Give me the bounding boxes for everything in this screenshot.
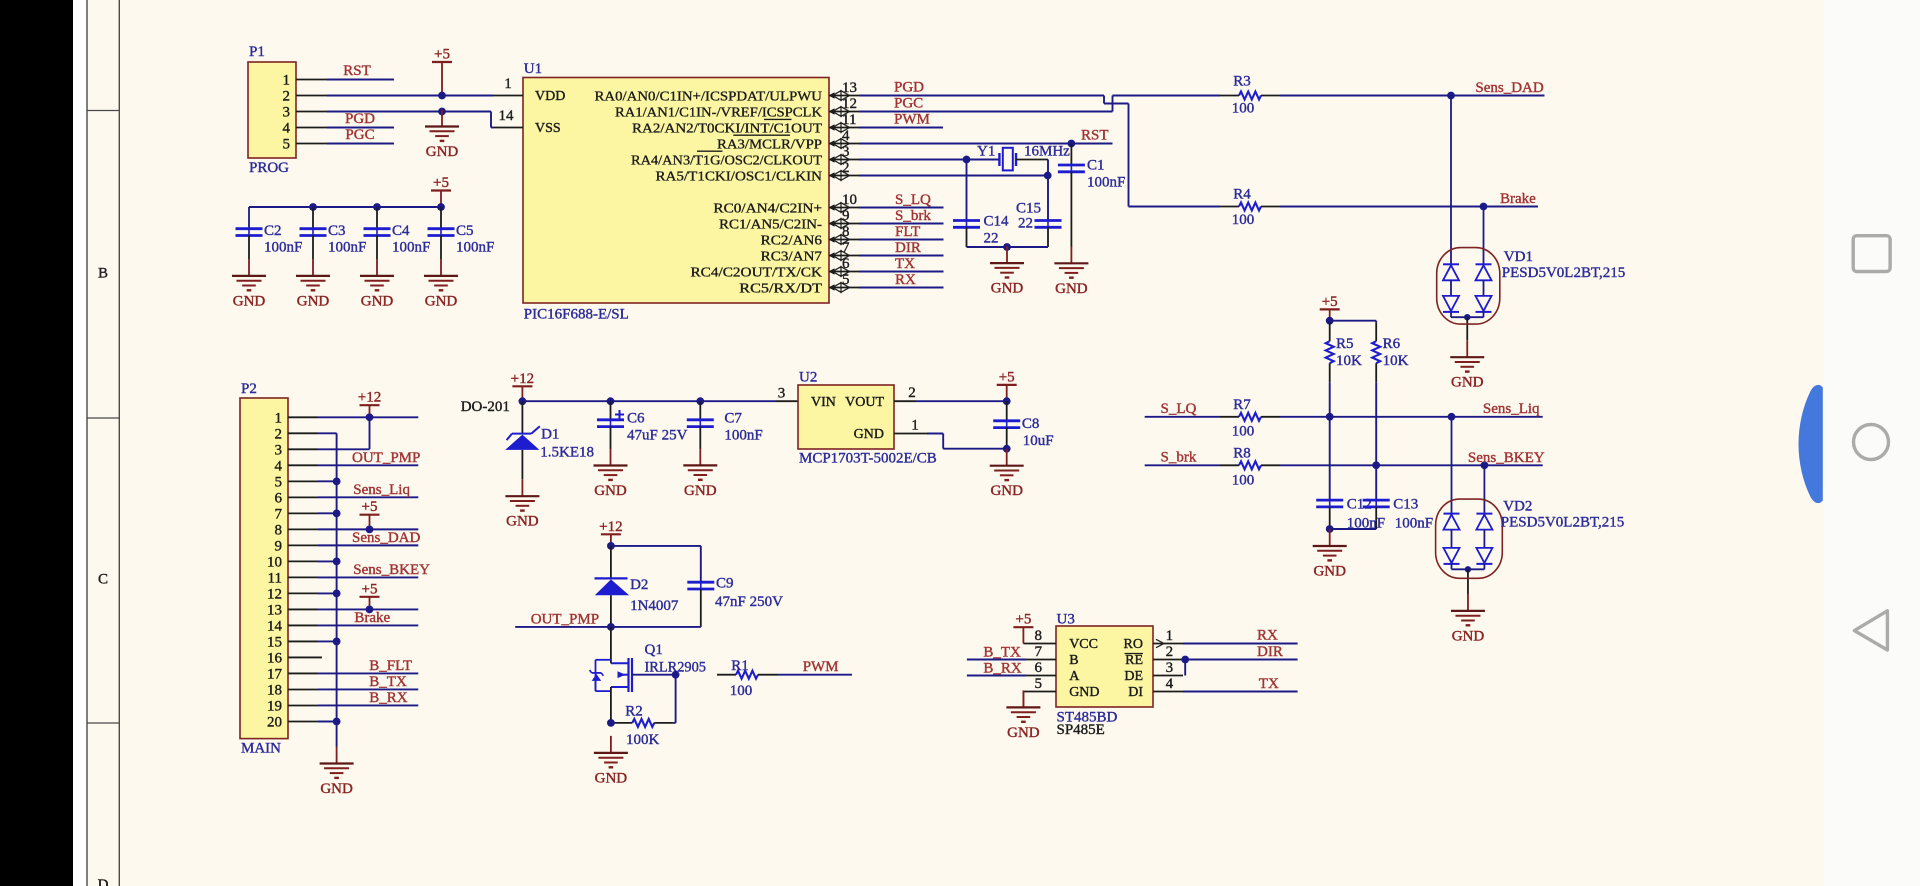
svg-text:GND: GND — [595, 770, 628, 786]
ground under Q1 — [610, 736, 612, 753]
wire R4 row (Brake) — [1129, 206, 1221, 208]
svg-text:Sens_BKEY: Sens_BKEY — [1468, 450, 1545, 466]
junction P1 +5 — [438, 92, 446, 100]
power +5 at C5 — [431, 189, 451, 191]
tvs diode VD2 — [1451, 417, 1453, 514]
ground under C2 — [248, 259, 250, 276]
power +12 at D2 — [601, 533, 621, 535]
junction P2 pin 5 — [333, 477, 341, 485]
power +5 at P1 — [432, 61, 452, 63]
wire P2 pin 5 to gnd bus — [318, 480, 337, 482]
U3 pin 4 DI — [1153, 691, 1183, 693]
svg-text:19: 19 — [267, 698, 282, 714]
svg-text:RC4/C2OUT/TX/CK: RC4/C2OUT/TX/CK — [691, 265, 823, 280]
svg-text:Brake: Brake — [354, 610, 390, 626]
junction RST/C1 — [1068, 140, 1076, 148]
svg-text:VDD: VDD — [535, 89, 565, 104]
U1 pin 1 VDD — [493, 95, 523, 97]
power +5 at P2 pin8 — [360, 514, 380, 516]
svg-text:PIC16F688-E/SL: PIC16F688-E/SL — [524, 307, 629, 323]
wire R2 right — [673, 722, 675, 724]
junction VD2/Sens_Liq — [1448, 413, 1456, 421]
svg-text:16: 16 — [267, 650, 283, 666]
svg-text:PWM: PWM — [803, 659, 839, 675]
U3 pin 1 RO — [1153, 643, 1183, 645]
svg-text:15: 15 — [267, 634, 282, 650]
svg-text:7: 7 — [1035, 644, 1043, 660]
wire P2 pin 18 — [318, 688, 418, 690]
svg-text:DE: DE — [1124, 669, 1143, 684]
capacitor C2 — [248, 207, 250, 229]
svg-text:10K: 10K — [1336, 353, 1362, 369]
svg-text:A: A — [1069, 669, 1080, 684]
svg-text:GND: GND — [991, 281, 1024, 297]
regulator U2 body — [798, 385, 894, 449]
wire U2 VIN stub — [776, 400, 798, 402]
power +5 at C8 — [997, 384, 1017, 386]
wire RA4 to crystal — [859, 159, 1000, 161]
ground under VD2 — [1467, 594, 1469, 611]
svg-text:VIN: VIN — [811, 395, 836, 410]
wire RA5 (U1.2) — [859, 175, 1048, 177]
svg-text:RC5/RX/DT: RC5/RX/DT — [739, 281, 822, 296]
left black bar — [0, 0, 73, 886]
wire VOUT to +5/C8 — [916, 400, 1007, 402]
svg-text:100nF: 100nF — [392, 240, 430, 256]
svg-text:2: 2 — [842, 160, 850, 176]
svg-text:R4: R4 — [1233, 187, 1251, 203]
svg-text:PGC: PGC — [894, 96, 923, 112]
svg-text:Sens_DAD: Sens_DAD — [352, 530, 421, 546]
svg-text:B: B — [98, 266, 108, 282]
U1 pin 13 RA0 — [829, 95, 859, 97]
wire U2 GND to C8 bottom — [927, 433, 943, 435]
capacitor C12 — [1316, 499, 1343, 502]
svg-text:U3: U3 — [1057, 612, 1075, 628]
svg-text:9: 9 — [842, 208, 850, 224]
junction C12 gnd — [1326, 525, 1334, 533]
U2 pin 2 stub — [894, 400, 916, 402]
svg-text:2: 2 — [275, 426, 283, 442]
svg-text:DO-201: DO-201 — [461, 399, 510, 415]
ground under C14/C15 — [1006, 246, 1008, 263]
power +12 at P2 — [360, 404, 380, 406]
wire PGD (U1.13) with jog to R4/Brake — [859, 95, 1104, 97]
U1 pin 2 RA5 — [829, 175, 859, 177]
wire PWM (U1.11) — [859, 127, 943, 129]
resistor R7 — [1220, 416, 1239, 418]
junction R5/Sens_Liq — [1326, 413, 1334, 421]
svg-text:5: 5 — [1035, 676, 1043, 692]
svg-text:GND: GND — [506, 514, 539, 530]
svg-text:3: 3 — [275, 442, 283, 458]
wire PGC from P1.5 — [327, 143, 394, 145]
svg-text:GND: GND — [233, 293, 266, 309]
svg-text:8: 8 — [275, 522, 283, 538]
svg-text:RX: RX — [895, 272, 916, 288]
resistor R5 — [1329, 321, 1331, 323]
P2 ground bus wire — [318, 432, 337, 434]
capacitor C14 — [953, 219, 980, 222]
svg-text:6: 6 — [1035, 660, 1043, 676]
wire R1 to PWM — [777, 674, 852, 676]
svg-text:U1: U1 — [524, 61, 542, 77]
capacitor C15 — [1035, 219, 1062, 222]
tvs diode VD1 — [1450, 96, 1452, 265]
svg-text:100K: 100K — [626, 732, 660, 748]
svg-text:DIR: DIR — [1257, 644, 1283, 660]
svg-text:C6: C6 — [627, 411, 645, 427]
svg-text:B: B — [1069, 653, 1078, 668]
wire C14-C15 bottom rail — [967, 246, 1049, 248]
wire P2 pin 15 to gnd bus — [318, 640, 337, 642]
wire P2 pin 14 — [318, 624, 418, 626]
transistor Q1 — [610, 627, 612, 663]
svg-text:RC3/AN7: RC3/AN7 — [761, 249, 822, 264]
junction OUT_PMP — [607, 623, 615, 631]
svg-text:100nF: 100nF — [724, 428, 762, 444]
ground under C7 — [699, 448, 701, 465]
wire PGD from P1.4 — [327, 127, 394, 129]
svg-text:17: 17 — [267, 666, 283, 682]
svg-text:R1: R1 — [731, 658, 749, 674]
U1 pin 7 RC3 — [829, 255, 859, 257]
capacitor C4 — [373, 203, 381, 211]
capacitor C13 — [1363, 499, 1390, 502]
svg-text:RE: RE — [1125, 653, 1143, 668]
svg-text:18: 18 — [267, 682, 282, 698]
svg-text:+12: +12 — [599, 519, 622, 535]
U1 pin 12 RA1 — [829, 111, 859, 113]
U1 pin 4 RA3 — [829, 143, 859, 145]
svg-text:5: 5 — [842, 272, 850, 288]
svg-text:S_brk: S_brk — [895, 208, 931, 224]
nav home circle — [1854, 425, 1889, 460]
connector P1 — [248, 62, 296, 158]
svg-text:+12: +12 — [358, 390, 381, 406]
svg-text:B_RX: B_RX — [369, 690, 408, 706]
ic U1 body — [523, 78, 829, 304]
svg-text:13: 13 — [842, 80, 857, 96]
U1 pin 9 RC1 — [829, 223, 859, 225]
svg-text:14: 14 — [267, 618, 283, 634]
svg-text:GND: GND — [1452, 628, 1485, 644]
capacitor C1 — [1070, 144, 1072, 165]
junction Sens_DAD/VD1 — [1447, 92, 1455, 100]
ground under C12 — [1329, 529, 1331, 546]
svg-text:PGD: PGD — [345, 111, 375, 127]
junction D2 top — [607, 542, 615, 550]
svg-text:GND: GND — [990, 483, 1023, 499]
wire R3 to Sens_DAD — [1280, 95, 1545, 97]
ground under P2 — [336, 747, 338, 764]
capacitor C3 — [309, 203, 317, 211]
svg-text:8: 8 — [1035, 628, 1043, 644]
U1 pin 11 RA2 — [829, 127, 859, 129]
wire C13 bottom to C12 — [1330, 528, 1377, 530]
svg-text:3: 3 — [778, 386, 786, 402]
svg-text:8: 8 — [842, 224, 850, 240]
svg-text:47nF 250V: 47nF 250V — [715, 594, 783, 610]
junction Brake/VD1 — [1480, 203, 1488, 211]
svg-text:C2: C2 — [264, 223, 282, 239]
wire P2 pin 17 — [318, 672, 418, 674]
svg-text:GND: GND — [1451, 375, 1484, 391]
svg-text:GND: GND — [1055, 281, 1088, 297]
wire P2 pin 12 to gnd bus — [318, 592, 337, 594]
svg-text:RA3/MCLR/VPP: RA3/MCLR/VPP — [717, 137, 822, 152]
svg-text:R5: R5 — [1336, 336, 1354, 352]
nav back triangle — [1854, 611, 1887, 650]
svg-text:12: 12 — [267, 586, 282, 602]
svg-text:100nF: 100nF — [1395, 516, 1433, 532]
svg-text:DI: DI — [1128, 685, 1143, 700]
wire P2 pin 10 to gnd bus — [318, 560, 337, 562]
svg-text:4: 4 — [275, 458, 283, 474]
ground under VD1 — [1466, 340, 1468, 357]
svg-text:DIR: DIR — [895, 240, 921, 256]
svg-text:Brake: Brake — [1500, 191, 1536, 207]
ground under C5 — [440, 259, 442, 276]
svg-text:R2: R2 — [625, 704, 643, 720]
junction C6 — [607, 397, 615, 405]
wire P2 pin 6 — [318, 496, 418, 498]
wire C13 lead — [1375, 465, 1377, 500]
svg-text:1.5KE18: 1.5KE18 — [540, 445, 594, 461]
svg-text:11: 11 — [268, 570, 282, 586]
ground under C6 — [610, 449, 612, 466]
svg-text:100: 100 — [1232, 212, 1255, 228]
svg-text:C3: C3 — [328, 223, 346, 239]
resistor R3 — [1220, 95, 1239, 97]
svg-text:13: 13 — [267, 602, 282, 618]
svg-text:+5: +5 — [362, 581, 378, 597]
svg-text:+5: +5 — [1015, 612, 1031, 628]
wire B_RX — [967, 675, 1026, 677]
svg-text:Sens_BKEY: Sens_BKEY — [353, 562, 430, 578]
wire P2 pin 1 — [318, 416, 418, 418]
junction Q1 source — [607, 719, 615, 727]
capacitor C7 — [699, 401, 701, 419]
U1 pin 5 RC5 — [829, 287, 859, 289]
svg-text:B_RX: B_RX — [983, 661, 1022, 677]
svg-text:B_FLT: B_FLT — [369, 658, 412, 674]
capacitor C9 — [687, 581, 714, 584]
svg-text:10uF: 10uF — [1023, 433, 1054, 449]
wire DIR (U1) — [859, 255, 944, 257]
svg-text:1: 1 — [1166, 628, 1174, 644]
ground under C1 — [1070, 246, 1072, 263]
connector P2 — [240, 398, 288, 739]
junction D1 — [519, 397, 527, 405]
svg-text:20: 20 — [267, 714, 282, 730]
junction crystal gnd — [1003, 243, 1011, 251]
junction P2 pin8 — [366, 525, 374, 533]
svg-text:VD2: VD2 — [1503, 499, 1532, 515]
wire C12 lead — [1329, 417, 1331, 500]
svg-text:7: 7 — [842, 240, 850, 256]
svg-text:RO: RO — [1124, 637, 1143, 652]
svg-text:9: 9 — [275, 538, 283, 554]
svg-text:GND: GND — [1313, 564, 1346, 580]
wire RST (U1.4) — [859, 143, 1113, 145]
svg-text:RA0/AN0/C1IN+/ICSPDAT/ULPWU: RA0/AN0/C1IN+/ICSPDAT/ULPWU — [595, 89, 823, 104]
+5 rail over C2-C5 — [249, 206, 441, 208]
wire +12 rail — [522, 400, 776, 402]
wire P2 pin 20 to gnd bus — [318, 720, 337, 722]
svg-text:6: 6 — [275, 490, 283, 506]
wire P2 pin 8 — [318, 528, 418, 530]
svg-text:1: 1 — [283, 73, 291, 89]
svg-text:Q1: Q1 — [645, 642, 663, 658]
svg-text:+5: +5 — [999, 369, 1015, 385]
junction P2 pin 12 — [333, 590, 341, 598]
tvs diode D1 — [521, 401, 523, 433]
svg-text:C7: C7 — [724, 411, 742, 427]
sheet border lines — [86, 0, 88, 886]
svg-text:PESD5V0L2BT,215: PESD5V0L2BT,215 — [1501, 514, 1624, 530]
U2 pin 1 stub — [894, 433, 927, 435]
wire FLT (U1) — [859, 239, 944, 241]
wire TX — [1183, 691, 1298, 693]
svg-text:RA1/AN1/C1IN-/VREF/ICSPCLK: RA1/AN1/C1IN-/VREF/ICSPCLK — [615, 105, 822, 120]
svg-text:100: 100 — [1232, 473, 1255, 489]
ground under P1 — [441, 110, 443, 127]
svg-text:12: 12 — [842, 96, 857, 112]
wire P1.2 to U1 VDD — [327, 95, 493, 97]
wire B_TX — [967, 659, 1026, 661]
wire Q1 gate — [632, 674, 676, 676]
svg-text:GND: GND — [320, 781, 353, 797]
svg-text:100: 100 — [1232, 424, 1255, 440]
svg-text:U2: U2 — [799, 370, 817, 386]
wire RST from P1.1 — [327, 79, 394, 81]
svg-text:PGD: PGD — [894, 80, 924, 96]
junction VD2/Sens_BKEY — [1481, 461, 1489, 469]
svg-text:14: 14 — [499, 108, 515, 124]
wire P2 pin3 riser — [318, 448, 370, 450]
svg-text:C9: C9 — [716, 576, 734, 592]
junction P2 pin 7 — [333, 509, 341, 517]
U3 pin 7 B — [1026, 659, 1056, 661]
U3 pin 6 A — [1026, 675, 1056, 677]
ground under U3 — [1022, 690, 1024, 707]
svg-text:+5: +5 — [362, 499, 378, 515]
wire OUT_PMP to C9 bottom — [611, 626, 701, 628]
svg-text:GND: GND — [426, 144, 459, 160]
wire C14 lead — [966, 160, 968, 221]
svg-text:4: 4 — [842, 128, 850, 144]
svg-text:Sens_Liq: Sens_Liq — [1483, 401, 1540, 417]
svg-text:OUT_PMP: OUT_PMP — [531, 611, 599, 627]
power +5 at P2 pin13 — [360, 596, 380, 598]
svg-text:OUT_PMP: OUT_PMP — [352, 450, 420, 466]
resistor R2 — [613, 722, 632, 724]
capacitor C5 — [437, 203, 445, 211]
svg-text:GND: GND — [361, 293, 394, 309]
wire R6 to Sens_BKEY row — [1375, 382, 1377, 465]
wire P2 pin 11 — [318, 576, 418, 578]
resistor R8 — [1220, 464, 1239, 466]
wire P2 pin 7 to gnd bus — [318, 512, 337, 514]
U1 pin 3 RA4 — [829, 159, 859, 161]
svg-text:C8: C8 — [1022, 416, 1040, 432]
svg-text:B_TX: B_TX — [369, 674, 407, 690]
wire S_brk — [1145, 464, 1220, 466]
svg-text:VD1: VD1 — [1504, 249, 1533, 265]
wire U3 GND — [1022, 692, 1024, 708]
svg-text:GND: GND — [297, 293, 330, 309]
svg-text:RA2/AN2/T0CKI/INT/C1OUT: RA2/AN2/T0CKI/INT/C1OUT — [632, 121, 822, 136]
wire OUT_PMP — [515, 626, 611, 628]
wire P2 pin 19 — [318, 704, 418, 706]
crystal Y1 — [998, 153, 1000, 166]
svg-text:2: 2 — [283, 89, 291, 105]
svg-text:100nF: 100nF — [328, 240, 366, 256]
resistor R4 — [1220, 206, 1239, 208]
wire +5 to R6 — [1330, 320, 1377, 322]
svg-text:MAIN: MAIN — [241, 741, 281, 757]
U3 pin 3 DE — [1153, 675, 1183, 677]
wire P2 pin 13 — [318, 608, 418, 610]
svg-text:RX: RX — [1257, 627, 1278, 643]
svg-text:+5: +5 — [1322, 294, 1338, 310]
svg-text:MCP1703T-5002E/CB: MCP1703T-5002E/CB — [799, 451, 937, 467]
svg-text:100: 100 — [730, 683, 753, 699]
svg-text:3: 3 — [1166, 660, 1174, 676]
resistor R6 — [1375, 322, 1377, 341]
svg-text:22: 22 — [984, 231, 999, 247]
wire gate to R2 — [675, 675, 677, 723]
svg-text:R3: R3 — [1233, 74, 1251, 90]
junction P1 gnd — [438, 108, 446, 116]
svg-text:GND: GND — [1069, 685, 1099, 700]
svg-text:C13: C13 — [1393, 497, 1418, 513]
U1 pin 6 RC4 — [829, 271, 859, 273]
wire S_brk (U1) — [859, 223, 944, 225]
power +5 at U3 — [1013, 626, 1033, 628]
svg-text:4: 4 — [1166, 676, 1174, 692]
svg-text:+12: +12 — [511, 371, 534, 387]
junction RA4/C14 — [963, 156, 971, 164]
wire R5 to Sens_Liq row — [1329, 382, 1331, 417]
svg-text:Y1: Y1 — [977, 144, 995, 160]
svg-text:C14: C14 — [984, 214, 1010, 230]
svg-text:3: 3 — [842, 144, 850, 160]
svg-text:D1: D1 — [541, 426, 559, 442]
wire RX (U1) — [859, 287, 944, 289]
svg-text:1: 1 — [911, 418, 919, 434]
svg-text:D2: D2 — [630, 577, 648, 593]
svg-text:TX: TX — [895, 256, 915, 272]
svg-text:16MHz: 16MHz — [1024, 144, 1070, 160]
wire P1.3 to U1 VSS — [327, 111, 491, 113]
svg-text:RST: RST — [1081, 128, 1109, 144]
nav recent apps square — [1853, 236, 1890, 272]
svg-text:1N4007: 1N4007 — [630, 598, 679, 614]
svg-text:GND: GND — [425, 293, 458, 309]
junction Q1 gate — [672, 671, 680, 679]
wire P2 pin 4 — [318, 464, 418, 466]
svg-text:10: 10 — [842, 192, 857, 208]
svg-text:6: 6 — [842, 256, 850, 272]
U1 pin 8 RC2 — [829, 239, 859, 241]
wire +12 to C9 — [611, 545, 701, 547]
junction P2 pin 20 — [333, 718, 341, 726]
junction C7 — [696, 397, 704, 405]
wire S_LQ — [1145, 416, 1220, 418]
svg-text:5: 5 — [275, 474, 283, 490]
